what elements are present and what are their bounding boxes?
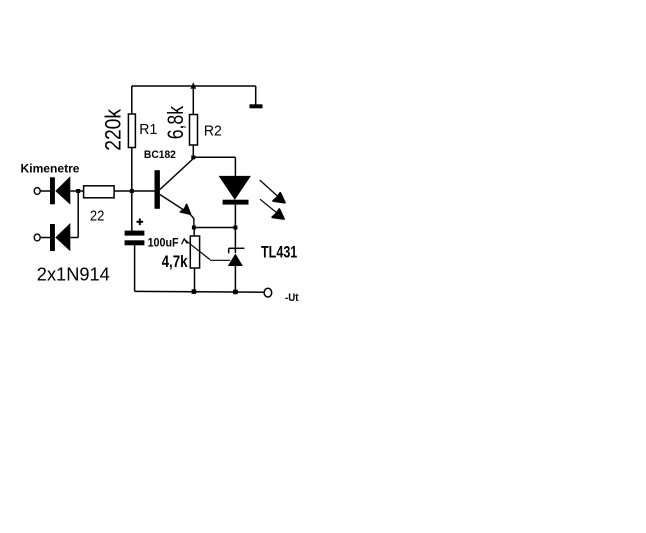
transistor Q1 emitter line xyxy=(160,195,194,228)
node collector junction xyxy=(191,155,195,159)
node top junction arrow xyxy=(190,82,196,89)
svg-text:220k: 220k xyxy=(100,108,125,151)
wire R2 top lead xyxy=(192,86,194,115)
svg-text:6,8k: 6,8k xyxy=(163,105,188,139)
wire collector rail xyxy=(193,156,235,158)
input terminal 2 xyxy=(34,234,40,241)
svg-text:TL431: TL431 xyxy=(261,243,297,262)
potentiometer wiper arrowhead xyxy=(182,239,188,244)
svg-text:2x1N914: 2x1N914 xyxy=(37,264,110,284)
transistor Q1 base bar xyxy=(155,170,160,209)
resistor 22 xyxy=(84,186,115,198)
svg-text:R2: R2 xyxy=(204,124,222,140)
wire capacitor down xyxy=(134,245,136,291)
node emitter rail left junction xyxy=(192,226,196,230)
TL431 anode lead xyxy=(234,266,236,292)
wire terminal 2 to diode D2 xyxy=(40,237,50,239)
resistor R1 xyxy=(128,114,135,148)
LED cathode bar xyxy=(223,200,249,205)
transistor Q1 emitter arrowhead xyxy=(180,204,190,214)
ground xyxy=(250,104,263,108)
diode D1 triangle xyxy=(55,176,70,204)
wire LED anode lead xyxy=(234,157,236,176)
wire emitter rail xyxy=(194,227,236,229)
wire pot bottom lead xyxy=(194,268,196,291)
node emitter rail right junction xyxy=(233,226,237,230)
potentiometer 4,7k body xyxy=(190,236,199,268)
LED light arrow 1 xyxy=(260,180,279,197)
wire top supply rail xyxy=(132,85,256,87)
capacitor C1 top plate xyxy=(125,231,145,236)
capacitor C1 plus sign xyxy=(137,219,144,226)
TL431 cathode bar hook xyxy=(228,248,230,253)
wire pot top lead xyxy=(193,228,195,237)
diode D1 cathode bar xyxy=(50,177,55,204)
diode D2 triangle xyxy=(55,223,70,251)
TL431 cathode bar xyxy=(229,247,245,249)
input terminal 1 xyxy=(34,188,40,195)
capacitor C1 bottom plate xyxy=(125,240,145,245)
wire ground drop xyxy=(255,86,257,105)
wire D2 to riser xyxy=(70,237,78,239)
resistor R2 xyxy=(190,115,198,146)
node bottom right junction xyxy=(233,290,238,295)
wire LED cathode down xyxy=(234,205,236,228)
TL431 cathode lead xyxy=(234,228,236,254)
wire riser D2 up to node xyxy=(77,191,79,238)
wire pot wiper to TL431 ref xyxy=(210,259,230,261)
LED triangle xyxy=(219,176,251,200)
potentiometer wiper line xyxy=(184,239,210,259)
wire R1 bottom to capacitor xyxy=(131,148,133,232)
diode D2 cathode bar xyxy=(50,224,55,251)
transistor Q1 collector line xyxy=(160,158,194,190)
wire resistor 22 to base xyxy=(114,190,154,192)
svg-text:4,7k: 4,7k xyxy=(162,252,188,271)
node diode junction xyxy=(76,189,80,193)
svg-text:Kimenetre: Kimenetre xyxy=(21,162,80,176)
node bottom left junction xyxy=(192,289,197,294)
wire R1 top lead xyxy=(131,86,133,114)
svg-text:-Ut: -Ut xyxy=(285,292,299,304)
wire bottom rail xyxy=(135,290,264,293)
LED light arrow 2 xyxy=(260,199,277,213)
wire D1 to resistor 22 xyxy=(70,190,83,192)
svg-text:100uF: 100uF xyxy=(148,238,179,250)
output terminal xyxy=(264,288,272,297)
svg-text:22: 22 xyxy=(90,208,105,225)
wire R2 bottom lead xyxy=(192,145,194,157)
wire terminal 1 to diode D1 xyxy=(40,190,50,192)
svg-text:R1: R1 xyxy=(139,122,157,138)
TL431 triangle xyxy=(228,254,243,267)
node base junction xyxy=(130,189,134,193)
svg-text:BC182: BC182 xyxy=(144,149,176,161)
